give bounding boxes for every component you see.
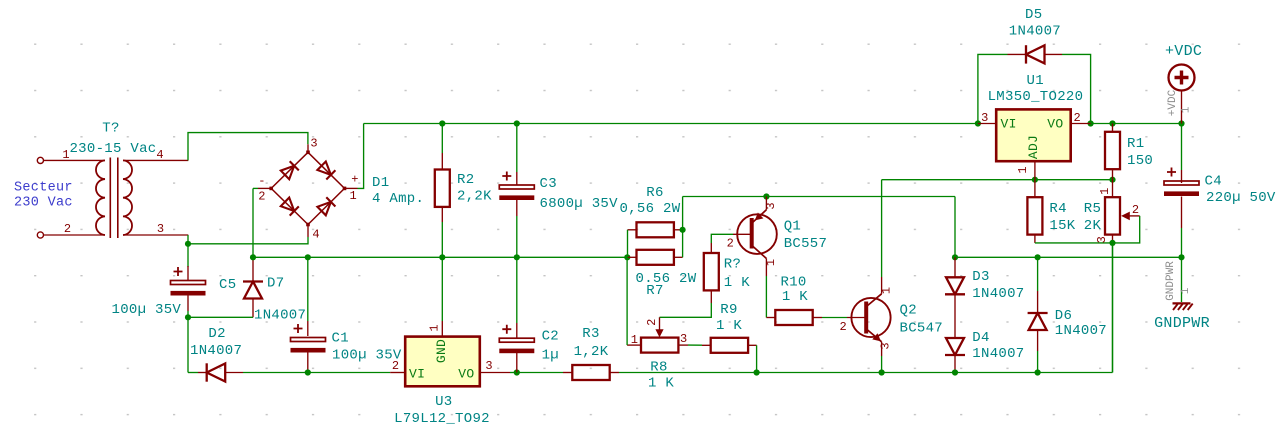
pin R4 bottom: [1034, 235, 1036, 243]
junction bridge bottom rail: [305, 254, 311, 260]
svg-text:2: 2: [392, 359, 399, 373]
svg-text:Q1: Q1: [784, 219, 801, 235]
pin U1 VO: [1071, 123, 1091, 125]
wire R10 to Q2: [822, 317, 847, 319]
diode D6: [1028, 313, 1048, 330]
pin C2 bottom: [516, 352, 518, 373]
pin D6 top: [1037, 291, 1039, 313]
pin D5 left: [1008, 53, 1027, 55]
svg-text:2: 2: [258, 190, 265, 204]
svg-text:1: 1: [62, 148, 69, 162]
bridge corner pad: [306, 151, 310, 155]
svg-text:1 K: 1 K: [724, 275, 750, 291]
wire R6R7 right join: [682, 230, 684, 257]
junction C3 top: [514, 120, 520, 126]
junction Q1 emitter: [763, 193, 769, 199]
wire ADJ rail: [882, 179, 1113, 181]
svg-text:1: 1: [631, 333, 638, 347]
svg-text:C5: C5: [219, 277, 236, 293]
pin R1 bottom: [1112, 169, 1114, 180]
transformer T1 pin 2: [44, 234, 106, 236]
wire top rail left: [364, 123, 978, 125]
transistor Q2 collector: [867, 294, 882, 306]
diode D4: [945, 338, 965, 355]
svg-text:1N4007: 1N4007: [254, 308, 306, 324]
bridge corner pad: [306, 223, 310, 227]
svg-text:1µ: 1µ: [542, 348, 559, 364]
bridge diode upper-right: [317, 162, 335, 180]
transformer T1 pin 3: [123, 234, 188, 236]
svg-text:D2: D2: [208, 326, 225, 342]
pin C4 top: [1181, 170, 1183, 183]
wire D5 right: [1062, 54, 1091, 123]
junction D4 bottom: [952, 369, 958, 375]
pin R9 right: [748, 344, 757, 346]
wire C3 bottom: [516, 216, 518, 257]
svg-text:+VDC: +VDC: [1167, 89, 1179, 116]
svg-text:1 K: 1 K: [648, 376, 674, 392]
svg-text:3: 3: [310, 137, 317, 151]
potentiometer R5: [1105, 197, 1120, 234]
pin C5 top: [187, 266, 189, 281]
svg-text:C4: C4: [1205, 174, 1222, 190]
pin R3 right: [610, 372, 619, 374]
pin R6 right: [674, 229, 683, 231]
pin R5 bottom: [1112, 235, 1114, 243]
junction U1 VI / D5: [975, 120, 981, 126]
wire node to bridge bottom: [188, 237, 308, 244]
svg-text:ADJ: ADJ: [1026, 135, 1041, 159]
capacitor C2: [499, 325, 534, 354]
resistor R3: [572, 365, 609, 380]
svg-text:100µ 35V: 100µ 35V: [112, 302, 182, 318]
wire C4 bottom: [1181, 228, 1183, 257]
pin R5 top: [1112, 180, 1114, 198]
pin Q2 base: [847, 317, 866, 319]
pin D7 top: [252, 257, 254, 281]
svg-text:-: -: [258, 174, 265, 188]
wire Q2 emitter down: [881, 356, 883, 373]
svg-text:2: 2: [839, 320, 846, 334]
pin D3-D4 link: [954, 294, 956, 338]
wire transformer pin3 down: [187, 235, 189, 244]
svg-text:3: 3: [879, 342, 893, 349]
pin R1 top: [1112, 124, 1114, 132]
junction +VDC / C4: [1178, 120, 1184, 126]
bridge corner pad: [269, 187, 273, 191]
wire C5 bottom: [187, 311, 189, 317]
wire D2 to C1: [243, 372, 308, 374]
wire mid rail left: [253, 256, 628, 258]
svg-text:2,2K: 2,2K: [457, 189, 492, 205]
svg-text:D4: D4: [972, 330, 989, 346]
transistor Q1 emitter: [753, 210, 767, 223]
wire R8 pin1 up: [626, 257, 628, 345]
svg-text:VO: VO: [1047, 117, 1063, 132]
pin R8 1: [627, 344, 641, 346]
regulator U3 body: [405, 337, 480, 387]
pin Q2 collector: [881, 277, 883, 294]
transformer T1 primary pin 1 circle: [37, 157, 43, 163]
junction R5 bottom: [1109, 240, 1115, 246]
junction D7 top: [250, 254, 256, 260]
svg-text:+VDC: +VDC: [1165, 43, 1202, 60]
wire R4 to R5 bottom: [1035, 242, 1113, 244]
junction C5 bottom: [185, 314, 191, 320]
pin R3 left: [563, 372, 572, 374]
svg-text:BC557: BC557: [784, 236, 828, 252]
capacitor C1: [291, 324, 326, 353]
wire R5 wiper return: [1113, 216, 1140, 243]
svg-text:3: 3: [981, 111, 988, 125]
wire transformer pin4 to bridge top: [188, 133, 308, 161]
svg-text:230-15 Vac: 230-15 Vac: [69, 141, 156, 157]
pin Q1 collector: [765, 259, 767, 277]
transistor Q1 emitter arrow: [755, 213, 764, 221]
svg-text:R7: R7: [646, 283, 663, 299]
junction R2/U3 GND: [439, 254, 445, 260]
svg-text:2: 2: [1132, 203, 1139, 217]
potentiometer R5 wiper arrow: [1121, 212, 1140, 221]
resistor R4: [1027, 197, 1042, 234]
resistor R10: [775, 310, 812, 325]
wire top rail right: [1091, 123, 1182, 125]
svg-text:0.56 2W: 0.56 2W: [636, 271, 697, 287]
regulator U1 body: [996, 109, 1070, 161]
pin R2 top: [441, 153, 443, 170]
svg-text:D6: D6: [1055, 308, 1072, 324]
pin C1 bottom: [307, 350, 309, 373]
pin R9 left: [702, 344, 711, 346]
junction R1/R5: [1109, 177, 1115, 183]
svg-text:GNDPWR: GNDPWR: [1154, 315, 1210, 332]
pin C2 top: [516, 323, 518, 338]
pin U1 VI: [978, 123, 996, 125]
svg-text:230 Vac: 230 Vac: [14, 196, 73, 211]
svg-text:T?: T?: [102, 121, 119, 137]
wire R9 down: [756, 345, 758, 372]
svg-text:1: 1: [1180, 287, 1192, 294]
svg-text:2: 2: [1073, 111, 1080, 125]
svg-text:D1: D1: [372, 175, 389, 191]
ground symbol GNDPWR: [1173, 303, 1193, 310]
svg-text:R1: R1: [1127, 136, 1144, 152]
svg-text:R9: R9: [720, 302, 737, 318]
resistor R6: [637, 222, 674, 237]
pin Rq top: [710, 243, 712, 253]
svg-text:C3: C3: [540, 176, 557, 192]
svg-text:R6: R6: [646, 185, 663, 201]
pin U1 ADJ: [1034, 161, 1036, 180]
capacitor C4: [1164, 168, 1199, 197]
pin Q1 base: [733, 233, 752, 235]
svg-text:R2: R2: [457, 172, 474, 188]
pin R4 top: [1034, 180, 1036, 198]
svg-text:0,56 2W: 0,56 2W: [620, 201, 681, 217]
svg-text:2: 2: [727, 237, 734, 251]
pin D6 bottom: [1037, 330, 1039, 351]
pin D3 top: [954, 257, 956, 277]
bridge pin 4 stub: [307, 225, 309, 238]
svg-text:LM350_TO220: LM350_TO220: [988, 89, 1084, 105]
pin R8 3: [678, 344, 688, 346]
wire R8 to R9: [688, 344, 702, 346]
svg-text:4 Amp.: 4 Amp.: [372, 191, 424, 207]
svg-text:VI: VI: [409, 367, 425, 382]
junction R9 bottom: [754, 369, 760, 375]
wire R6R7 left join: [627, 230, 629, 257]
wire R3 to R9 node: [619, 372, 757, 374]
bridge corner pad: [343, 187, 347, 191]
wire D6 bottom: [1037, 351, 1039, 373]
pin +VDC: [1181, 90, 1183, 124]
potentiometer R8 wiper arrow: [655, 317, 663, 337]
junction ADJ: [1032, 177, 1038, 183]
svg-text:4: 4: [312, 228, 319, 242]
transistor Q1 collector: [753, 246, 767, 259]
wire bridge plus up: [358, 124, 364, 189]
svg-text:D3: D3: [972, 269, 989, 285]
junction R2 top: [439, 120, 445, 126]
svg-text:3: 3: [680, 332, 687, 346]
bridge diode lower-right: [317, 197, 335, 215]
junction R1 top: [1109, 120, 1115, 126]
potentiometer R8: [641, 338, 678, 353]
svg-text:150: 150: [1127, 153, 1153, 169]
bridge diode upper-left: [281, 161, 299, 179]
bridge rectifier D1 diamond: [271, 152, 344, 224]
svg-text:1N4007: 1N4007: [1009, 24, 1061, 40]
svg-text:C2: C2: [542, 329, 559, 345]
junction U1 VO / D5: [1088, 120, 1094, 126]
svg-text:Secteur: Secteur: [14, 181, 73, 196]
pin C4 bottom: [1181, 197, 1183, 229]
svg-text:2K: 2K: [1084, 218, 1102, 234]
svg-text:1 K: 1 K: [782, 289, 808, 305]
transformer T1 pin 1: [44, 159, 106, 161]
svg-text:1: 1: [1016, 166, 1030, 173]
pin R7 right: [674, 256, 683, 258]
resistor R1: [1105, 132, 1120, 169]
wire down to D2: [187, 317, 189, 372]
svg-text:1N4007: 1N4007: [972, 346, 1024, 362]
bridge pin 2 stub: [258, 187, 271, 189]
svg-text:+: +: [351, 173, 358, 187]
wire R5 bottom down: [1112, 243, 1114, 373]
wire C5 top: [187, 244, 189, 267]
junction D6 bottom: [1035, 369, 1041, 375]
transistor Q1 base bar: [750, 218, 754, 249]
capacitor C5: [171, 267, 206, 296]
svg-text:R8: R8: [650, 360, 667, 376]
wire Rq to R8 wiper: [660, 303, 712, 317]
wire down to D3 node: [954, 197, 956, 258]
pin R6 left: [628, 229, 637, 231]
diode D7: [243, 282, 263, 299]
svg-text:GND: GND: [434, 339, 449, 363]
svg-text:R3: R3: [582, 326, 599, 342]
junction C1 bottom: [305, 369, 311, 375]
bridge diode lower-left: [281, 198, 299, 216]
wire R6 up: [682, 197, 684, 230]
svg-text:GNDPWR: GNDPWR: [1165, 261, 1177, 301]
pin R2 bottom: [441, 207, 443, 222]
svg-text:C1: C1: [332, 331, 349, 347]
svg-text:2: 2: [645, 319, 659, 326]
wire to R3: [517, 372, 563, 374]
diode D3: [945, 277, 965, 294]
resistor R9: [711, 338, 748, 353]
wire U3 GND up: [441, 257, 443, 321]
svg-text:L79L12_TO92: L79L12_TO92: [394, 411, 490, 427]
junction Q2 emitter: [879, 369, 885, 375]
junction D6 top: [1035, 254, 1041, 260]
pin R10 left: [766, 317, 775, 319]
svg-text:2: 2: [64, 222, 71, 236]
svg-text:6800µ 35V: 6800µ 35V: [540, 196, 619, 212]
wire C4 top: [1181, 124, 1183, 171]
resistor R2: [435, 170, 450, 207]
svg-text:1N4007: 1N4007: [972, 286, 1024, 302]
svg-text:U3: U3: [435, 394, 452, 410]
junction D3 top: [952, 254, 958, 260]
wire Rq to Q1 base: [711, 234, 733, 243]
svg-text:220µ 50V: 220µ 50V: [1206, 190, 1276, 206]
wire bottom rail right: [757, 372, 1113, 374]
transformer T1 secondary coil: [123, 160, 132, 235]
diode D2: [207, 363, 226, 381]
svg-text:1: 1: [1181, 106, 1193, 113]
svg-text:4: 4: [156, 148, 163, 162]
wire bridge minus stub: [253, 187, 258, 189]
svg-text:R4: R4: [1049, 201, 1066, 217]
svg-text:1N4007: 1N4007: [190, 343, 242, 359]
pin R10 right: [813, 317, 822, 319]
pin R7 left: [628, 256, 637, 258]
transformer T1 primary coil: [96, 160, 105, 235]
wire Q1 collector down: [765, 276, 767, 318]
wire bottom to R5 node: [1112, 243, 1114, 373]
junction R6 right: [680, 227, 686, 233]
wire R6 to Q1/Q2 node: [683, 196, 955, 198]
wire bridge minus down: [252, 188, 254, 257]
bridge pin 3 stub: [307, 144, 309, 152]
resistor R?: [704, 253, 719, 290]
wire R2 bottom: [441, 222, 443, 257]
transformer T1 pin 4: [123, 159, 188, 161]
capacitor C3: [499, 172, 534, 201]
svg-text:U1: U1: [1027, 73, 1044, 89]
wire mid rail right: [955, 256, 1182, 258]
pin U3 VO: [480, 372, 510, 374]
bridge pin 1 stub: [345, 187, 358, 189]
pin D2 left: [198, 372, 207, 374]
svg-text:D5: D5: [1025, 7, 1042, 23]
wire C3 top: [516, 124, 518, 173]
wire C1 to U3: [308, 372, 390, 374]
pin Q1 emitter: [765, 197, 767, 210]
transformer T1 primary pin 2 circle: [37, 232, 43, 238]
svg-text:15K: 15K: [1049, 218, 1075, 234]
svg-text:R?: R?: [724, 257, 741, 273]
svg-text:1: 1: [764, 259, 778, 266]
svg-text:3: 3: [485, 359, 492, 373]
wire U3 VO to node: [510, 372, 517, 374]
pin D2 right: [225, 372, 243, 374]
pin C1 top: [307, 321, 309, 336]
pin Q2 emitter: [881, 342, 883, 356]
pin Rq bottom: [710, 290, 712, 303]
power symbol +VDC: [1169, 65, 1195, 91]
wire D6 top: [1037, 257, 1039, 291]
pin D5 right: [1045, 53, 1063, 55]
diode D5: [1026, 45, 1045, 63]
svg-text:D7: D7: [267, 276, 284, 292]
svg-text:1 K: 1 K: [716, 318, 742, 334]
junction C3/C2: [514, 254, 520, 260]
wire Q2 collector up: [881, 180, 883, 277]
pin C3 bottom: [516, 199, 518, 216]
pin U3 GND: [441, 321, 443, 337]
wire to D2: [188, 372, 198, 374]
svg-text:1,2K: 1,2K: [574, 344, 609, 360]
transistor Q2 emitter: [867, 330, 882, 342]
wire to GNDPWR: [1181, 257, 1183, 302]
transistor Q2 base bar: [864, 302, 868, 334]
svg-text:1N4007: 1N4007: [1055, 323, 1107, 339]
pin C3 top: [516, 172, 518, 185]
junction R6R7 left / R8: [624, 254, 630, 260]
transistor Q2 circle: [851, 298, 890, 337]
svg-text:VO: VO: [458, 367, 474, 382]
wire R2 top: [441, 124, 443, 154]
pin C5 bottom: [187, 295, 189, 312]
wire C1 top: [307, 257, 309, 321]
junction U3 VO / C2: [514, 369, 520, 375]
svg-text:1: 1: [1098, 188, 1112, 195]
svg-text:BC547: BC547: [900, 321, 944, 337]
svg-text:3: 3: [764, 202, 778, 209]
svg-text:R5: R5: [1084, 201, 1101, 217]
pin D4 bottom: [954, 355, 956, 373]
wire C2 top: [516, 257, 518, 323]
resistor R7: [637, 250, 674, 265]
pin D7 bottom: [252, 299, 254, 318]
svg-text:3: 3: [1095, 236, 1109, 243]
pin U3 VI: [390, 372, 405, 374]
junction transformer/C5 node: [185, 241, 191, 247]
svg-text:1: 1: [428, 324, 442, 331]
transistor Q1 circle: [737, 214, 777, 254]
svg-text:1: 1: [880, 287, 894, 294]
junction C4/GNDPWR: [1178, 254, 1184, 260]
svg-text:VI: VI: [1001, 117, 1017, 132]
wire D5 left: [978, 54, 1008, 123]
wire C5-D7 bottom: [188, 316, 253, 318]
transformer T1 core: [110, 158, 118, 239]
svg-text:Q2: Q2: [900, 303, 917, 319]
svg-text:3: 3: [157, 222, 164, 236]
transistor Q2 emitter arrow: [872, 333, 881, 341]
svg-text:1: 1: [349, 189, 356, 203]
